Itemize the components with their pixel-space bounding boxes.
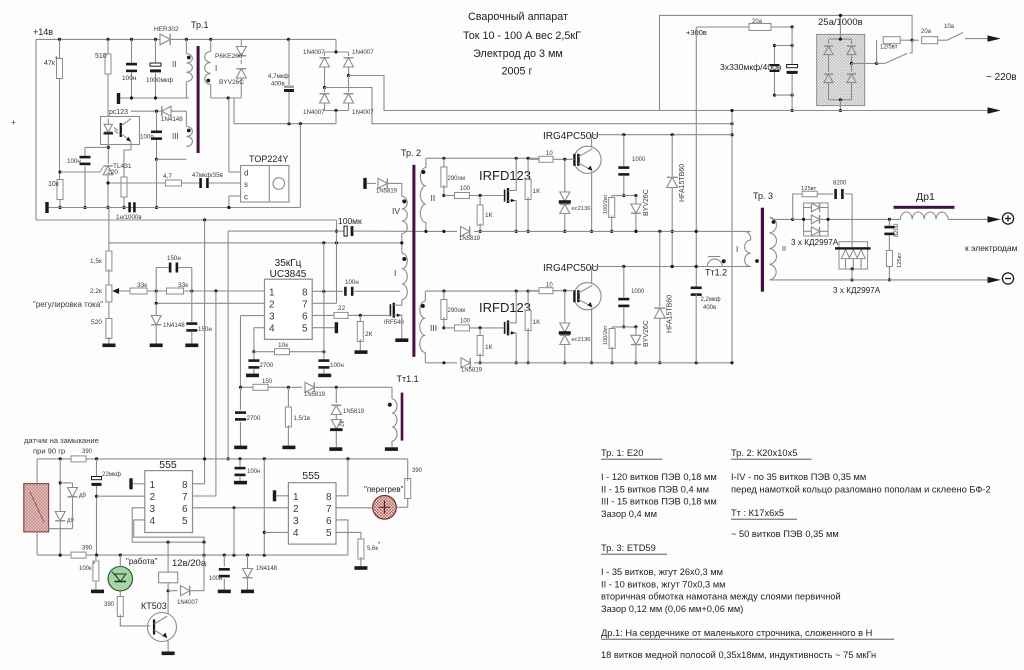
capacitor 4.7uF/400v — [268, 39, 294, 123]
svg-text:1N5819: 1N5819 — [376, 189, 398, 195]
arrow output minus — [988, 277, 1001, 283]
svg-text:555: 555 — [159, 459, 177, 471]
wire 555a pin6 to 555b pin2 — [193, 506, 289, 509]
ground KT503 — [162, 652, 175, 656]
555a pin1 bar — [129, 478, 145, 489]
svg-text:II: II — [172, 60, 176, 69]
wire caps left column — [770, 44, 780, 97]
wire bridge top — [325, 50, 349, 53]
label current adjust — [33, 300, 103, 309]
ground IRF540 — [395, 338, 408, 342]
svg-text:400в: 400в — [271, 81, 285, 88]
svg-text:Ток 10 - 100 А вес 2,5кГ: Ток 10 - 100 А вес 2,5кГ — [463, 30, 581, 42]
core bar Dr1 — [894, 206, 955, 209]
svg-text:1N4007: 1N4007 — [352, 49, 374, 56]
spec Tt l1 — [731, 529, 839, 539]
ground 2700 — [246, 374, 259, 378]
snubber out cap 8200 — [817, 181, 852, 220]
UC3845 pin numbers left — [269, 288, 275, 335]
wire L2 ref line — [109, 208, 402, 245]
svg-text:4: 4 — [293, 528, 299, 539]
spec Tr3 title — [601, 543, 667, 554]
IC 555 first box — [145, 471, 193, 533]
zener pair ec2136 q2 — [559, 291, 591, 365]
wire KT503 emitter — [167, 640, 169, 652]
label 35kHz — [275, 258, 302, 269]
wire clamp bottom — [211, 96, 242, 99]
svg-text:при 90 гр: при 90 гр — [33, 447, 65, 456]
svg-text:2,2к: 2,2к — [90, 288, 102, 295]
wire rail corner to bridge — [335, 39, 337, 52]
resistor 520 — [91, 302, 112, 344]
svg-text:12/5вт: 12/5вт — [880, 45, 898, 51]
resistor 10k uc — [254, 291, 326, 354]
svg-text:HFA15TB60: HFA15TB60 — [679, 164, 686, 202]
wire II gate line — [444, 195, 455, 197]
title line3 — [473, 48, 563, 60]
svg-text:IRG4PC50U: IRG4PC50U — [543, 263, 599, 274]
diode 1N5819 III — [461, 358, 483, 374]
svg-text:4,7мкф: 4,7мкф — [268, 73, 289, 80]
svg-text:2в: 2в — [340, 420, 346, 427]
inductor Dr1 — [900, 212, 987, 219]
potentiometer 2.2k — [90, 285, 130, 302]
svg-text:35кГц: 35кГц — [275, 258, 302, 269]
label Tr3 — [753, 191, 773, 201]
ground rail aux — [47, 207, 300, 209]
svg-text:BYV26C: BYV26C — [219, 79, 244, 86]
capacitor 2.2uF/400v — [691, 287, 721, 363]
rectifier 3xKD2997A fwd box — [804, 203, 829, 236]
wire KT503 collector — [167, 589, 170, 614]
svg-text:1N4148: 1N4148 — [256, 566, 278, 572]
IC TOP224Y box — [241, 166, 289, 203]
svg-text:10к: 10к — [48, 181, 60, 188]
diode 1N4148 rail2 — [243, 555, 278, 590]
svg-text:6: 6 — [302, 312, 308, 323]
wire pin5 right — [312, 327, 334, 329]
resistor 10 gate1 — [528, 151, 574, 162]
bridge25 diode tr — [847, 39, 856, 65]
ground 150n — [185, 344, 198, 348]
wire +300v rail — [696, 25, 793, 28]
svg-text:390: 390 — [82, 449, 93, 455]
svg-text:HER302: HER302 — [154, 26, 179, 33]
wire sensor drop — [36, 459, 38, 484]
svg-text:+14в: +14в — [33, 27, 53, 37]
svg-text:125вт: 125вт — [897, 252, 903, 268]
wire III bottom rail start — [425, 361, 457, 364]
wire upper collector rail — [592, 133, 732, 136]
svg-text:10: 10 — [546, 283, 553, 289]
wire output plus line — [852, 218, 900, 221]
svg-text:2,2мкф: 2,2мкф — [701, 297, 721, 303]
resistor 1K III — [477, 328, 493, 365]
terminal minus — [1002, 273, 1013, 284]
wire pc123 bottom to TL431 — [85, 142, 110, 164]
svg-text:III: III — [172, 132, 179, 141]
node +14v label — [33, 27, 53, 37]
resistor 1K q2 — [525, 291, 540, 365]
stray plus mark — [11, 118, 16, 127]
svg-text:2: 2 — [269, 300, 275, 311]
svg-text:100: 100 — [460, 186, 471, 192]
ground 1.5/1w — [282, 446, 295, 450]
resistor 390 peregrev — [396, 459, 422, 507]
svg-text:1N5819: 1N5819 — [461, 368, 483, 374]
resistor 150 — [253, 379, 302, 390]
svg-text:100n: 100n — [140, 134, 154, 141]
switch 10a — [944, 24, 988, 40]
svg-text:I: I — [215, 64, 217, 73]
capacitor 150n pin2 — [186, 291, 211, 344]
svg-text:47мкф/35в: 47мкф/35в — [192, 172, 224, 179]
diode HER302 — [154, 26, 179, 45]
svg-text:1000: 1000 — [632, 157, 646, 163]
svg-text:1N4007: 1N4007 — [303, 109, 325, 116]
diode P6KE200 — [215, 39, 246, 60]
wire IRFD drain up II — [515, 158, 517, 190]
wire pin8 up — [323, 243, 325, 291]
svg-text:II - 15 витков ПЭВ 0,4 мм: II - 15 витков ПЭВ 0,4 мм — [601, 484, 709, 494]
diode 1N4007 bl — [303, 88, 330, 117]
wire left vertical — [35, 39, 37, 220]
svg-text:2700: 2700 — [247, 415, 261, 422]
555b pins right — [326, 492, 332, 539]
resistor 100k* — [79, 555, 99, 590]
svg-text:I-IV - по 35 витков ПЭВ 0,35 м: I-IV - по 35 витков ПЭВ 0,35 мм — [731, 472, 866, 482]
Tr2 winding II — [420, 158, 435, 231]
svg-text:II: II — [782, 246, 786, 253]
svg-text:Тр. 3: ETD59: Тр. 3: ETD59 — [601, 543, 656, 553]
IC UC3845 box — [265, 279, 313, 339]
wire gnd to diode — [367, 182, 376, 184]
diode 1N5819 clamp — [331, 387, 364, 415]
svg-text:100н: 100н — [330, 362, 344, 369]
svg-text:8200: 8200 — [894, 223, 900, 237]
label IRG4PC50U lower — [543, 263, 599, 274]
svg-text:I: I — [394, 268, 396, 278]
label 555 second — [302, 470, 320, 482]
label 555 first — [159, 459, 177, 471]
svg-text:P6KE200: P6KE200 — [215, 53, 243, 60]
spec Tr2 l2 — [731, 484, 991, 494]
resistor 12/5w — [880, 37, 914, 51]
wire drain up — [228, 98, 230, 172]
diode HFA15TB60 q2 — [654, 231, 673, 364]
Tr1 winding III — [172, 111, 192, 146]
wire dc minus line — [400, 122, 734, 125]
svg-text:1000: 1000 — [631, 289, 645, 295]
diode 1N4007 tl — [303, 49, 330, 88]
svg-text:II: II — [431, 193, 436, 203]
snubber out resistor 125w — [793, 186, 818, 219]
wire 555b pin6 — [336, 520, 348, 555]
ground bar Tr1 sec — [117, 93, 120, 104]
svg-text:400в: 400в — [703, 305, 716, 311]
wire winding III top — [131, 110, 186, 113]
svg-text:12в/20а: 12в/20а — [172, 558, 207, 569]
555a pins right — [182, 480, 188, 527]
snubber q2 wire — [612, 325, 637, 328]
svg-text:I - 120 витков ПЭВ 0,18 мм: I - 120 витков ПЭВ 0,18 мм — [601, 472, 717, 482]
svg-text:IV: IV — [392, 206, 400, 216]
wire relay line — [132, 541, 205, 544]
555a pins left — [150, 480, 156, 527]
spec Tr3 l1 — [601, 567, 723, 577]
spec Tt title — [731, 508, 797, 519]
svg-text:125вт: 125вт — [801, 186, 817, 192]
svg-text:20а: 20а — [752, 19, 763, 25]
label sensor line1 — [24, 436, 99, 445]
rectifier block 25a hatched — [817, 34, 865, 105]
wire Tr3 sec top — [770, 217, 794, 221]
resistor 510 — [95, 39, 111, 116]
label 3xKD2997A fwd — [791, 238, 839, 247]
Tr3 winding I — [736, 231, 759, 266]
ground pot — [103, 344, 116, 348]
svg-text:Электрод до 3 мм: Электрод до 3 мм — [473, 48, 563, 60]
zener pair ec2136 q1 — [559, 159, 591, 233]
svg-text:"перегрев": "перегрев" — [364, 485, 404, 494]
resistor 10 gate2 — [528, 283, 574, 294]
resistor 1.5k — [90, 243, 112, 285]
arrow output bottom — [988, 107, 1001, 113]
wire pin7 right — [312, 220, 338, 303]
capacitor 100uF — [337, 216, 426, 236]
svg-text:1: 1 — [269, 288, 275, 299]
diode 1N4148 ref — [151, 303, 185, 343]
svg-text:100н: 100н — [345, 279, 359, 286]
label IRG4PC50U upper — [543, 131, 599, 142]
resistor 290ohm II — [441, 158, 465, 197]
transformer Tr3 core bar — [761, 208, 764, 292]
svg-text:1К: 1К — [485, 212, 493, 219]
output filter cap 8200 — [884, 219, 900, 250]
svg-text:390: 390 — [104, 602, 115, 608]
spec Tr3 l3 — [601, 592, 841, 602]
capacitor 330uF bank — [787, 27, 798, 112]
capacitor 100n sec3 — [140, 111, 162, 209]
resistor 100/2w q2 — [603, 325, 615, 364]
label rabota — [126, 557, 158, 566]
resistor 22 — [334, 305, 390, 318]
label Dr1 — [916, 191, 935, 203]
svg-text:510: 510 — [95, 53, 107, 60]
igbt Q2 — [574, 267, 601, 365]
svg-text:4: 4 — [150, 516, 156, 527]
svg-text:2700: 2700 — [260, 362, 274, 369]
label Tr2 — [401, 148, 421, 158]
label 25a/1000v — [818, 17, 863, 28]
switch bypass — [877, 40, 913, 63]
resistor 2K gate — [357, 315, 372, 350]
wire 150 line — [239, 386, 253, 389]
ground 100n rail2 — [218, 590, 231, 594]
wire s-line — [106, 181, 166, 184]
transistor KT503 — [141, 601, 177, 642]
svg-text:100/2вт: 100/2вт — [603, 194, 609, 214]
wire bridge bottom — [325, 109, 349, 124]
svg-text:7: 7 — [302, 300, 308, 311]
wire III top rail — [425, 290, 539, 293]
bridge25 bottom wire — [829, 98, 852, 112]
TOP224Y pin d — [229, 169, 249, 178]
resistor 47k* — [44, 39, 63, 182]
resistor 33k a — [130, 282, 167, 294]
ground zener — [329, 447, 342, 451]
svg-text:555: 555 — [302, 470, 320, 482]
UC3845 pin numbers right — [302, 288, 308, 335]
svg-text:10: 10 — [546, 151, 553, 157]
optocoupler pc123 box — [101, 109, 140, 145]
svg-text:390: 390 — [82, 546, 93, 552]
wire long vert A — [204, 220, 206, 484]
svg-text:150н: 150н — [167, 255, 181, 262]
Tt1.1 core bar — [401, 393, 404, 441]
svg-text:IRFD123: IRFD123 — [479, 300, 531, 315]
svg-text:22: 22 — [338, 305, 346, 312]
spec Tr1 l3 — [601, 497, 717, 507]
svg-text:4,7: 4,7 — [163, 173, 172, 180]
resistor 5.6k* — [358, 539, 381, 566]
wire 300v right bus — [730, 109, 733, 363]
label IRFD123 lower — [479, 300, 531, 315]
svg-text:3 х КД2997А: 3 х КД2997А — [791, 238, 839, 247]
svg-text:1К: 1К — [485, 344, 493, 351]
svg-text:5: 5 — [182, 516, 188, 527]
svg-text:1,5к: 1,5к — [90, 258, 102, 265]
diode 1N4007 tr — [344, 49, 375, 76]
wire 555b pin8 — [336, 459, 348, 496]
svg-text:5: 5 — [302, 324, 308, 335]
wire output minus line — [852, 279, 987, 281]
resistor 100/2w q1 — [603, 194, 615, 233]
svg-text:1N4148: 1N4148 — [163, 322, 185, 329]
svg-text:8: 8 — [302, 288, 308, 299]
wire 150 line right — [315, 386, 392, 389]
capacitor 2700 tt — [235, 387, 261, 445]
svg-text:ec2136: ec2136 — [572, 206, 591, 212]
title line2 — [463, 30, 581, 42]
svg-text:I - 35 витков, жгут 26х0,3 мм: I - 35 витков, жгут 26х0,3 мм — [601, 567, 723, 577]
svg-text:1: 1 — [150, 480, 156, 491]
svg-text:100н: 100н — [67, 158, 81, 165]
resistor 1K II — [477, 196, 493, 233]
wire diode to winding IV — [388, 183, 402, 196]
wire winding IV bottom — [400, 234, 403, 254]
spec Tr3 l2 — [601, 579, 726, 589]
wire IRFD source down III — [515, 333, 518, 365]
svg-text:290ом: 290ом — [448, 308, 465, 314]
capacitor 1n/1000v — [116, 202, 142, 221]
diode HFA15TB60 q1 — [667, 135, 686, 268]
diodes 3xKD2997A free — [835, 219, 871, 270]
svg-text:HFA15TB60: HFA15TB60 — [667, 295, 674, 333]
resistor 390 bottom rail — [71, 546, 93, 559]
resistor 220 — [107, 142, 131, 210]
wire IRFD drain up III — [515, 291, 517, 323]
svg-text:III: III — [430, 323, 437, 333]
wire 555b pin7 — [336, 507, 373, 509]
wire +14v top rail — [36, 38, 336, 40]
wire emitter rail q1 — [516, 230, 751, 233]
svg-text:1N4148: 1N4148 — [161, 116, 183, 123]
svg-text:д9: д9 — [67, 518, 75, 524]
svg-text:Тт1.2: Тт1.2 — [705, 268, 727, 278]
LED rabota — [108, 555, 132, 591]
capacitor 100n rail — [122, 39, 137, 98]
svg-text:1N4007: 1N4007 — [303, 49, 325, 56]
diode 1N4007 br — [344, 76, 375, 117]
Tr1 winding I — [205, 39, 218, 98]
wire Tr3 sec bottom — [770, 278, 854, 281]
transformer Tt1.1 — [388, 387, 397, 447]
wire 555a pin8 — [193, 483, 205, 485]
svg-text:КТ503: КТ503 — [141, 601, 167, 611]
pc123 transistor — [120, 119, 131, 142]
resistor 10k — [48, 170, 63, 209]
current transformer Tt1.2 — [705, 257, 727, 278]
svg-text:2К: 2К — [365, 331, 373, 338]
label IRFD123 upper — [479, 168, 531, 183]
ground 2K — [355, 350, 368, 354]
capacitor 47uF/35v — [182, 172, 241, 188]
svg-text:к электродам: к электродам — [965, 243, 1018, 253]
ground bar pin5 — [335, 322, 338, 333]
svg-text:390: 390 — [412, 468, 423, 474]
svg-text:100н: 100н — [122, 75, 137, 82]
wire 555b pin5 — [336, 532, 361, 541]
svg-text:~ 50 витков ПЭВ 0,35 мм: ~ 50 витков ПЭВ 0,35 мм — [731, 529, 839, 539]
wire free rect bottom — [851, 269, 853, 280]
wire lower emitter rail — [516, 361, 733, 364]
svg-text:Тт1.1: Тт1.1 — [397, 374, 419, 384]
resistor 1.5/1w — [285, 387, 310, 445]
wire caps bus — [775, 44, 794, 97]
wire vert to gnd rail — [299, 124, 301, 208]
svg-text:2: 2 — [150, 492, 156, 503]
transformer Tr2 core bar — [412, 165, 415, 357]
diode 1N4148 opto — [161, 106, 183, 123]
label Tr1 — [191, 20, 209, 30]
title line1 — [468, 11, 568, 23]
diode zener 2v — [330, 415, 346, 448]
label 3xKD2997A free — [833, 286, 881, 295]
junction dots on +14v rail — [58, 38, 290, 41]
capacitor 100n left — [67, 147, 91, 209]
svg-text:220: 220 — [107, 169, 118, 176]
ground Tt1.1 — [385, 447, 398, 451]
diode 1N5819 in — [376, 178, 398, 194]
svg-text:8200: 8200 — [833, 181, 847, 187]
svg-text:д9: д9 — [79, 493, 87, 499]
wire IRFD source down II — [515, 201, 518, 233]
svg-text:1N5819: 1N5819 — [459, 236, 481, 242]
wire pin3 left — [241, 316, 265, 388]
capacitor 22uF — [92, 459, 121, 555]
wire IRF540 drain — [401, 300, 403, 306]
svg-text:перед намоткой кольцо разломан: перед намоткой кольцо разломано пополам … — [731, 484, 991, 494]
diode BYV26C q1 — [631, 189, 650, 233]
wire vert 264 — [263, 459, 266, 555]
fuse 20a left — [749, 19, 771, 31]
svg-text:1К: 1К — [533, 319, 541, 326]
bridge25 diode bl — [824, 63, 833, 99]
transformer Tr1 core bar — [197, 46, 200, 153]
svg-text:3х330мкф/400в: 3х330мкф/400в — [720, 62, 782, 72]
label ~220v — [986, 72, 1017, 83]
